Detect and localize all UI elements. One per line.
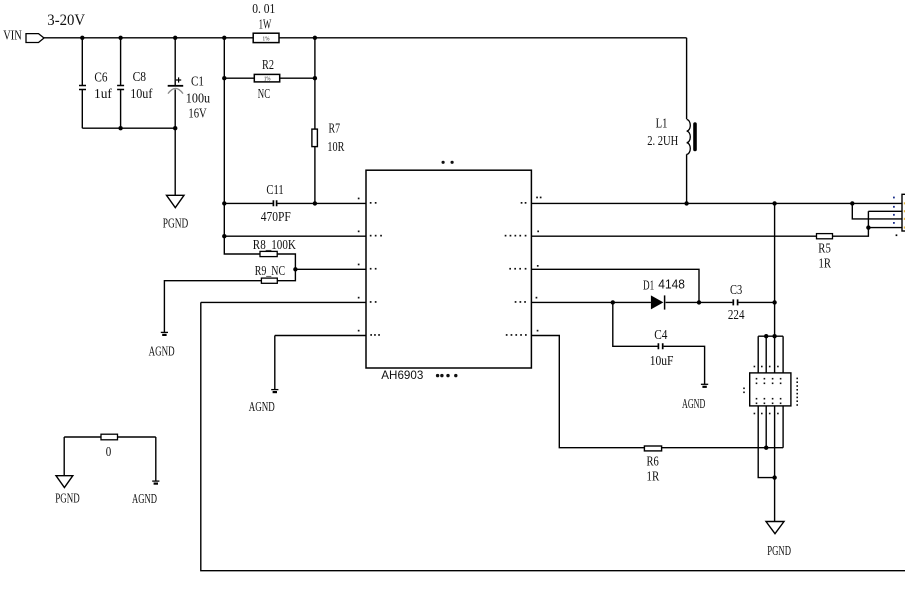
capacitor C4 plates	[658, 343, 662, 349]
wire 0.01 to L1 corner	[279, 37, 687, 39]
connector pin number dot below	[896, 234, 898, 236]
resistor R6 body	[644, 446, 661, 451]
svg-text:16V: 16V	[188, 107, 206, 122]
svg-text:1%: 1%	[264, 77, 271, 83]
junction pin2 row at x224	[222, 234, 226, 238]
IC part value tiny dots after AH6903	[436, 374, 439, 377]
junction C4 branch at pin4 row	[611, 300, 615, 304]
wire pin4 long loop	[201, 302, 905, 570]
wire block bottom pin stubs	[758, 406, 783, 448]
Q1 block pin names top rows	[756, 378, 758, 380]
svg-text:AH6903: AH6903	[381, 368, 423, 382]
svg-text:10R: 10R	[327, 140, 344, 155]
svg-text:AGND: AGND	[149, 345, 175, 360]
capacitor C1 branch wires	[174, 38, 176, 196]
svg-text:AGND: AGND	[249, 400, 275, 415]
junction C6 at top rail	[80, 36, 84, 40]
wire 0ohm pgnd drop	[63, 437, 65, 476]
wire connector pin3	[852, 203, 902, 219]
IC left pin 2 number dot	[358, 231, 360, 233]
IC right pin 3 number dot	[537, 265, 539, 267]
inductor L1 coil	[687, 120, 691, 155]
connector P1 pin marks	[904, 202, 905, 228]
transistor block box	[750, 373, 791, 406]
svg-text:C1: C1	[191, 75, 204, 90]
junction C3 right at x774	[772, 300, 776, 304]
Q1 block pin numbers above box	[754, 366, 756, 368]
svg-text:1W: 1W	[259, 17, 272, 32]
IC right pin 4 name dots	[515, 301, 517, 303]
IC right pin 5 number dot	[537, 330, 539, 332]
PGND triangle under C1	[167, 195, 185, 207]
svg-text:10uf: 10uf	[130, 87, 152, 102]
svg-text:3-20V: 3-20V	[47, 12, 85, 29]
svg-text:PGND: PGND	[767, 544, 791, 559]
connector P1 pin numbers tiny	[893, 197, 895, 224]
junction R2 right	[313, 76, 317, 80]
junction C1 at cap bottom rail	[173, 126, 177, 130]
wire R8 path	[224, 236, 295, 269]
wire pin2 row	[224, 235, 366, 237]
wire top rail VIN to 0.01	[44, 37, 253, 39]
capacitor C1 plus sign	[176, 77, 181, 82]
wire below block loop	[758, 448, 774, 478]
IC left pin 3 number dot	[358, 264, 360, 266]
wire right pin1 row to connector	[531, 202, 902, 204]
wire R2 row	[224, 77, 315, 79]
svg-text:R9_NC: R9_NC	[255, 264, 285, 279]
capacitor C8 branch wires	[120, 38, 122, 128]
junction block top bar a	[764, 334, 768, 338]
svg-text:R8_100K: R8_100K	[253, 238, 296, 253]
capacitor C6 branch wires	[81, 38, 83, 128]
wire 0ohm left	[64, 436, 156, 438]
wire connector pin2	[868, 210, 902, 212]
wire pin5 row	[275, 335, 366, 337]
wire R6 to block	[661, 447, 783, 449]
wire right vertical x315	[314, 38, 316, 204]
junction x852 at pin1 row	[850, 201, 854, 205]
Q1 block pin names bottom rows	[756, 398, 758, 400]
svg-text:C6: C6	[94, 70, 107, 85]
svg-text:0: 0	[106, 445, 112, 460]
svg-text:PGND: PGND	[163, 216, 188, 231]
svg-text:NC: NC	[258, 87, 270, 102]
wire connector pin4	[868, 227, 902, 229]
svg-text:1R: 1R	[647, 470, 660, 485]
svg-text:4148: 4148	[658, 276, 685, 291]
wire vertical x774 from pin1 row	[774, 203, 776, 336]
IC right pin 2 name dots	[505, 235, 507, 237]
junction R7 bottom at C11 row	[313, 201, 317, 205]
svg-text:R5: R5	[818, 242, 831, 257]
wire block top pin stubs	[758, 336, 783, 373]
wire pin4 row	[201, 301, 366, 303]
PGND triangle bottom right	[766, 522, 784, 534]
Q1 block pin numbers below box	[754, 413, 756, 415]
capacitor C3 plates	[733, 299, 737, 305]
capacitor C11 plates	[273, 200, 276, 206]
diode D1	[651, 295, 664, 309]
svg-text:100u: 100u	[186, 91, 210, 106]
junction R2 left	[222, 76, 226, 80]
IC left pin 4 name dots	[370, 301, 372, 303]
wire pin5 agnd drop	[274, 336, 276, 390]
svg-text:PGND: PGND	[55, 492, 79, 507]
junction x224 at top rail	[222, 36, 226, 40]
svg-text:R7: R7	[329, 122, 341, 137]
svg-text:AGND: AGND	[132, 492, 157, 507]
wire right pin4 row diode C3	[531, 301, 774, 303]
IC left pin 5 number dot	[358, 330, 360, 332]
IC right pin 1 name dots	[521, 202, 523, 204]
IC left pin 1 number dot	[358, 198, 360, 200]
IC right pin 3 name dots	[509, 268, 511, 270]
wire C11 row pin1	[224, 202, 366, 204]
junction below block	[772, 475, 776, 479]
svg-text:224: 224	[728, 308, 745, 323]
svg-text:C3: C3	[730, 283, 742, 298]
svg-text:470PF: 470PF	[261, 210, 291, 225]
IC right pin 5 name dots	[506, 334, 508, 336]
junction x315 at top rail	[313, 36, 317, 40]
IC left pin 2 name dots	[370, 235, 372, 237]
junction x774 at pin1 row	[772, 201, 776, 205]
wire L1 bottom segment	[686, 154, 688, 203]
resistor R2 body	[254, 74, 279, 82]
junction block bottom bar	[764, 446, 768, 450]
IC U1 designator tiny text dots	[442, 161, 445, 164]
AGND symbol pin5	[271, 389, 278, 391]
svg-text:AGND: AGND	[682, 397, 705, 412]
svg-text:R2: R2	[262, 58, 274, 73]
resistor R9 body	[261, 278, 277, 283]
IC left pin 3 name dots	[370, 268, 372, 270]
wire C4 branch	[613, 302, 705, 384]
wire 0ohm agnd drop	[155, 437, 157, 481]
inductor L1 core bar	[693, 124, 697, 150]
svg-text:10uF: 10uF	[650, 354, 674, 369]
wire cap bottom rail	[82, 127, 175, 129]
wire left vertical x224	[223, 38, 225, 236]
svg-text:C4: C4	[654, 328, 667, 343]
svg-text:1R: 1R	[819, 256, 832, 271]
svg-text:1uf: 1uf	[94, 87, 112, 102]
svg-text:C11: C11	[266, 183, 283, 198]
IC right pin 4 number dot	[536, 297, 538, 299]
wire L1 top segment	[686, 38, 688, 119]
svg-text:0. 01: 0. 01	[252, 2, 275, 17]
junction C11 left	[222, 201, 226, 205]
svg-text:C8: C8	[133, 70, 147, 85]
resistor R5 body	[817, 234, 833, 239]
junction C8 at top rail	[118, 36, 122, 40]
capacitor C6 plates	[79, 86, 86, 90]
svg-text:L1: L1	[656, 117, 668, 132]
connector P1 right edge box	[902, 194, 905, 231]
IC U1 box AH6903	[366, 170, 531, 368]
wire block top bar	[758, 335, 783, 337]
wire right pin3 row	[531, 269, 699, 302]
junction diode cathode node	[697, 300, 701, 304]
wire pin3 row	[295, 268, 366, 270]
junction R8 R9 at pin3 row	[293, 267, 297, 271]
VIN port connector	[26, 34, 44, 43]
resistor 0 ohm body	[101, 434, 118, 440]
junction C8 at cap bottom rail	[118, 126, 122, 130]
wire to PGND bottom right	[774, 448, 776, 522]
resistor R7 body vertical	[312, 129, 318, 147]
AGND symbol bottom left	[152, 480, 159, 482]
svg-text:2. 2UH: 2. 2UH	[647, 134, 678, 149]
AGND symbol C4	[701, 383, 708, 385]
resistor 0.01 1W body	[253, 33, 279, 42]
svg-text:R6: R6	[647, 454, 659, 469]
PGND triangle bottom left	[56, 476, 73, 488]
wire right pin5 row to R6	[531, 336, 644, 448]
wire right pin2 row to R5	[531, 211, 868, 236]
AGND symbol R9	[161, 331, 168, 333]
IC left pin 1 name dots	[370, 202, 372, 204]
junction L1 output at pin1 row	[684, 201, 688, 205]
capacitor C1 polarized plates	[168, 85, 184, 87]
IC left pin 5 name dots	[370, 334, 372, 336]
svg-text:D1: D1	[643, 279, 654, 294]
IC right pin 2 number dot	[537, 231, 539, 233]
Q1 part number tiny dots right column	[796, 378, 798, 380]
IC right pin 1 number dots	[536, 197, 538, 199]
svg-text:VIN: VIN	[3, 29, 22, 44]
junction C1 at top rail	[173, 36, 177, 40]
Q1 designator tiny dots left	[743, 388, 745, 390]
resistor R8 body	[260, 251, 277, 256]
capacitor C8 plates	[117, 86, 124, 90]
svg-text:1%: 1%	[263, 36, 270, 42]
IC left pin 4 number dot	[358, 297, 360, 299]
junction block top bar b	[772, 334, 776, 338]
junction connector pin4 wire	[866, 225, 870, 229]
wire R9 path	[164, 269, 295, 332]
